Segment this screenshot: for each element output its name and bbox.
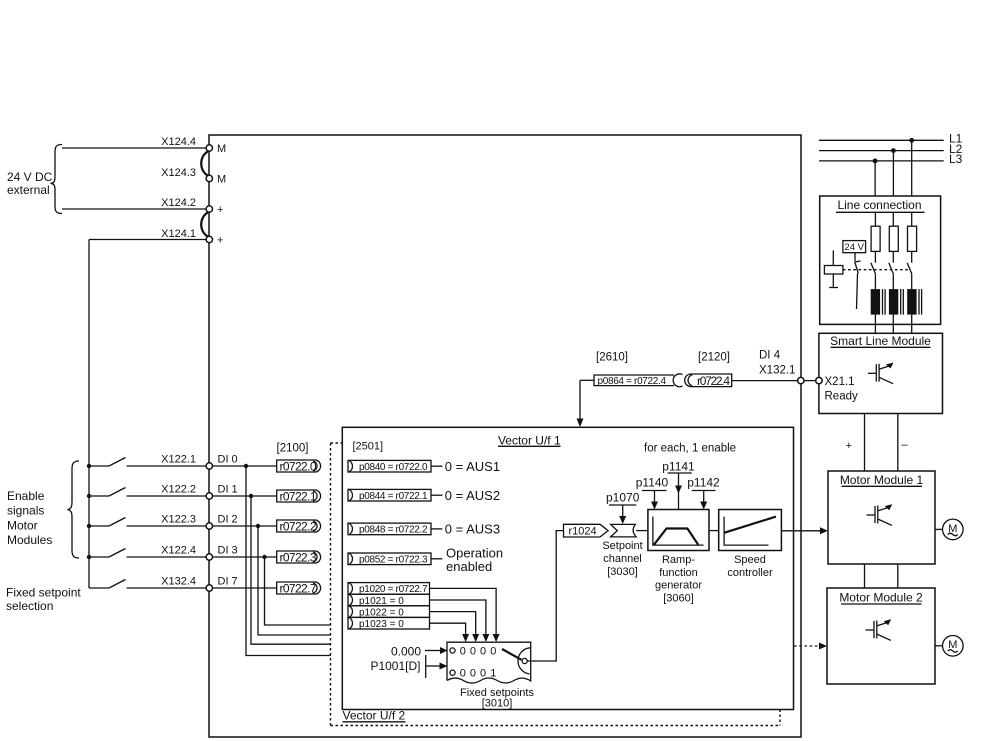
wire DI branch to Vector U/f 2	[265, 557, 331, 625]
wire DI branch to Vector U/f 2	[251, 496, 331, 644]
wire p1023 to fixed setpoints	[430, 623, 466, 635]
svg-text:0: 0	[470, 668, 476, 680]
svg-text:Setpoint: Setpoint	[602, 540, 642, 552]
arrow p1142 down	[703, 491, 705, 503]
arrow p1140 down	[654, 491, 656, 503]
ramp-function generator box	[648, 510, 709, 551]
bits 0 0 0 0	[460, 645, 497, 657]
svg-text:p1140: p1140	[636, 475, 669, 489]
svg-text:function: function	[659, 567, 698, 579]
choke 1	[871, 289, 885, 315]
svg-text:0 = AUS2: 0 = AUS2	[445, 488, 500, 503]
wire DI branch to Vector U/f 2	[258, 526, 331, 635]
phase wires into fuses	[874, 212, 876, 226]
svg-text:p1070: p1070	[606, 490, 640, 504]
svg-text:external: external	[7, 183, 50, 197]
wire ramp to speed controller	[709, 530, 719, 532]
motor M1	[943, 519, 964, 540]
Smart Line Module box	[819, 333, 943, 413]
jumper arc X124.4-X124.3	[201, 152, 208, 176]
junction dot DI 0	[244, 464, 248, 468]
switch X132.4	[89, 587, 109, 589]
terminal X124.1	[206, 236, 212, 242]
speed graph line	[724, 517, 776, 533]
svg-text:Fixed setpoint: Fixed setpoint	[6, 586, 81, 600]
mains line L1	[819, 139, 944, 141]
contactor linkage dashed	[843, 269, 909, 271]
svg-text:p0852 = r0722.3: p0852 = r0722.3	[359, 555, 428, 566]
svg-text:X21.1: X21.1	[825, 376, 855, 388]
svg-text:r0722.3: r0722.3	[280, 551, 317, 565]
svg-text:selection: selection	[6, 599, 53, 613]
choke 3	[907, 289, 921, 315]
svg-text:[2120]: [2120]	[698, 352, 730, 364]
wires chokes to Smart Line Module	[874, 315, 876, 334]
fuse 2	[889, 226, 898, 251]
connector output r1024	[564, 524, 609, 537]
junction dot DI 3	[262, 555, 266, 559]
svg-text:+: +	[217, 235, 223, 247]
IGBT symbol MM2	[866, 619, 892, 640]
svg-text:DI 1: DI 1	[218, 484, 238, 496]
wire MM1 to motor	[935, 528, 943, 530]
tap L3	[873, 159, 878, 164]
Motor Module 2 box	[827, 588, 935, 684]
svg-text:p1022 = 0: p1022 = 0	[359, 607, 404, 618]
wire fixed setpoints output to r1024	[527, 531, 563, 661]
Vector U/f 2 dashed box edges	[331, 443, 781, 726]
wire between terminals	[804, 380, 816, 382]
24V supply box	[843, 241, 866, 253]
svg-text:[2610]: [2610]	[596, 352, 628, 364]
terminal X122.3	[206, 523, 212, 529]
DC bus wires MM1 to MM2	[864, 564, 866, 588]
wire DI branch to Vector U/f 2	[246, 466, 331, 656]
contactor coil	[824, 266, 843, 275]
svg-text:Motor: Motor	[7, 518, 38, 532]
svg-text:Vector U/f 2: Vector U/f 2	[343, 709, 406, 723]
svg-text:X122.4: X122.4	[161, 545, 196, 557]
svg-text:0: 0	[480, 645, 486, 657]
svg-text:0: 0	[490, 645, 496, 657]
brace 24V DC	[51, 145, 63, 214]
bit terminal circle row2	[450, 670, 455, 675]
stub wire	[431, 528, 442, 530]
svg-text:generator: generator	[655, 580, 702, 592]
svg-text:0 = AUS3: 0 = AUS3	[445, 522, 500, 537]
wire DI 3 to connector	[213, 556, 277, 558]
stub wire	[431, 558, 442, 560]
connector output r0722.1	[277, 490, 321, 504]
terminal X124.3	[206, 175, 212, 181]
connector output r0722.4	[685, 374, 732, 388]
contactor contact 3	[907, 263, 912, 275]
svg-text:[3030]: [3030]	[607, 566, 638, 578]
svg-text:Line connection: Line connection	[837, 198, 921, 212]
svg-text:X124.2: X124.2	[161, 197, 196, 209]
svg-text:r0722.4: r0722.4	[697, 374, 730, 388]
svg-text:0: 0	[460, 645, 466, 657]
svg-text:+: +	[846, 440, 852, 452]
binector input p0840	[348, 460, 431, 473]
terminal X124.2	[206, 206, 212, 212]
svg-text:X122.1: X122.1	[161, 454, 196, 466]
svg-text:P1001[D]: P1001[D]	[370, 659, 420, 673]
IGBT symbol SLM	[868, 363, 894, 384]
terminal X132.4	[206, 585, 212, 591]
svg-text:r1024: r1024	[569, 526, 597, 538]
svg-text:0 = AUS1: 0 = AUS1	[445, 459, 500, 474]
Motor Module 1 box	[828, 471, 935, 564]
svg-text:[2501]: [2501]	[353, 441, 384, 453]
svg-text:p1142: p1142	[687, 475, 720, 489]
selector switch arc	[518, 648, 531, 674]
svg-text:DI 2: DI 2	[218, 514, 238, 526]
wire X124.4	[62, 147, 206, 149]
contactor contact 2	[889, 263, 894, 275]
svg-text:+: +	[217, 204, 223, 216]
arrow p1141 down	[678, 473, 680, 510]
selector contact circle	[522, 658, 527, 663]
wire p1021 to fixed setpoints	[430, 600, 486, 635]
svg-text:p1020 = r0722.7: p1020 = r0722.7	[359, 584, 428, 595]
svg-text:DI 7: DI 7	[218, 576, 238, 588]
wire p1020 to fixed setpoints	[430, 588, 497, 635]
ramp trapezoid	[654, 529, 698, 545]
svg-text:Vector U/f 1: Vector U/f 1	[498, 434, 561, 448]
stub wire	[431, 465, 442, 467]
svg-text:0: 0	[470, 645, 476, 657]
svg-text:X124.3: X124.3	[161, 167, 196, 179]
wire X122.3 to terminal	[127, 525, 206, 527]
svg-text:0: 0	[480, 668, 486, 680]
wires fuse to contacts	[874, 251, 876, 262]
svg-text:DI 0: DI 0	[218, 454, 238, 466]
brace enable signals	[68, 461, 80, 558]
wire X122.1 to terminal	[127, 465, 206, 467]
svg-text:24 V: 24 V	[844, 242, 864, 253]
terminal X122.1	[206, 463, 212, 469]
wire X124.2	[62, 208, 206, 210]
junction dot DI3 bus	[87, 555, 91, 559]
switch X122.2	[89, 495, 109, 497]
switch X122.1	[89, 465, 109, 467]
svg-text:Ready: Ready	[825, 390, 858, 402]
speed graph axes	[724, 517, 768, 546]
wire X124.1	[89, 239, 206, 241]
fuse 3	[908, 226, 917, 251]
bus wire from X124.1 down	[88, 240, 90, 589]
bit terminal circle row1	[450, 648, 455, 653]
binector input p1022	[348, 606, 430, 619]
wire branch down into Vector U/f 1	[579, 380, 581, 419]
wire speed controller to Motor Module 1	[781, 530, 823, 532]
wire MM2 to motor	[935, 645, 943, 647]
terminal X122.4	[206, 554, 212, 560]
svg-text:p0844 = r0722.1: p0844 = r0722.1	[359, 491, 428, 502]
tap L2	[891, 148, 896, 153]
svg-text:Motor Module 1: Motor Module 1	[840, 473, 924, 487]
svg-text:r0722.1: r0722.1	[280, 490, 317, 504]
mains line L2	[819, 150, 944, 152]
Vector U/f 1 function box	[342, 427, 793, 709]
svg-text:X124.1: X124.1	[161, 228, 196, 240]
svg-text:controller: controller	[727, 567, 773, 579]
svg-text:r0722.0: r0722.0	[280, 460, 317, 474]
svg-text:L3: L3	[949, 152, 963, 166]
mains line L3	[819, 160, 944, 162]
svg-text:1: 1	[490, 668, 496, 680]
crescent on p0864	[673, 374, 682, 387]
selector switch blade	[502, 649, 522, 660]
svg-text:0: 0	[460, 668, 466, 680]
junction dot DI1 bus	[87, 494, 91, 498]
svg-text:Speed: Speed	[734, 554, 766, 566]
switch X122.3	[89, 525, 109, 527]
fixed setpoints selector box	[447, 642, 531, 683]
svg-text:X132.4: X132.4	[161, 576, 196, 588]
tap L1	[909, 138, 914, 143]
switch X122.4	[89, 556, 109, 558]
motor M2	[943, 636, 964, 657]
wire DI 7 to connector	[213, 587, 277, 589]
wires contacts to chokes	[874, 274, 876, 289]
svg-text:0.000: 0.000	[391, 645, 421, 659]
svg-text:X124.4: X124.4	[161, 136, 196, 148]
wire r0722.4 to terminal	[732, 380, 798, 382]
svg-text:p1021 = 0: p1021 = 0	[359, 596, 404, 607]
DC bus + wire SLM to MM1	[864, 414, 866, 471]
svg-text:r0722.2: r0722.2	[280, 520, 317, 534]
setpoint channel banner symbol	[611, 524, 637, 537]
speed controller box	[719, 510, 782, 551]
terminal X122.2	[206, 493, 212, 499]
arrow P1001 into box	[425, 655, 427, 678]
ramp graph axes	[653, 517, 704, 546]
svg-text:X122.3: X122.3	[161, 514, 196, 526]
fuse 1	[871, 226, 880, 251]
IGBT symbol MM1	[867, 504, 893, 525]
binector input p1023	[348, 617, 430, 630]
junction dot DI0 bus	[87, 464, 91, 468]
wire DI 1 to connector	[213, 495, 277, 497]
24V switch	[854, 253, 856, 262]
wire p1022 to fixed setpoints	[430, 612, 476, 635]
svg-text:[3060]: [3060]	[663, 592, 694, 604]
svg-text:M: M	[217, 143, 226, 155]
Line connection box	[820, 196, 941, 324]
wire DI 0 to connector	[213, 465, 277, 467]
junction dot DI 2	[256, 524, 260, 528]
junction dot DI 1	[249, 494, 253, 498]
binector input p1020	[348, 582, 430, 595]
svg-text:X132.1: X132.1	[759, 365, 795, 377]
Control Unit enclosure box	[209, 135, 801, 737]
svg-text:Motor Module 2: Motor Module 2	[839, 591, 923, 605]
terminal X124.4	[206, 145, 212, 151]
svg-text:p0848 = r0722.2: p0848 = r0722.2	[359, 525, 428, 536]
svg-text:DI 3: DI 3	[218, 545, 238, 557]
svg-text:Smart Line Module: Smart Line Module	[830, 334, 931, 348]
binector input p0848	[348, 523, 431, 536]
svg-text:for each, 1 enable: for each, 1 enable	[644, 443, 736, 455]
binector input p0864	[594, 375, 674, 387]
choke 2	[889, 289, 903, 315]
svg-text:p0840 = r0722.0: p0840 = r0722.0	[359, 462, 428, 473]
connector output r0722.0	[277, 460, 321, 474]
svg-text:–: –	[902, 439, 909, 451]
connector output r0722.3	[277, 551, 321, 565]
wire X122.2 to terminal	[127, 495, 206, 497]
connector output r0722.2	[277, 520, 321, 534]
svg-text:X122.2: X122.2	[161, 484, 196, 496]
DC bus - wire SLM to MM1	[897, 414, 899, 471]
svg-text:[3010]: [3010]	[482, 698, 513, 710]
dashed wire Vector U/f 2 to MM2	[794, 645, 823, 647]
contactor contact 1	[871, 263, 876, 275]
svg-text:M: M	[217, 174, 226, 186]
jumper arc X124.2-X124.1	[201, 213, 208, 237]
terminal X132.1 on enclosure	[798, 377, 804, 383]
arrow 0.000 into box	[425, 650, 441, 652]
arrow p1070 down	[622, 505, 624, 517]
stub wire	[431, 494, 442, 496]
wire banner to ramp generator	[636, 530, 648, 532]
svg-text:Enable: Enable	[7, 489, 45, 503]
wire X132.4 to terminal	[127, 587, 206, 589]
binector input p1021	[348, 594, 430, 607]
wire DI 2 to connector	[213, 525, 277, 527]
junction dot DI2 bus	[87, 524, 91, 528]
wire X122.4 to terminal	[127, 556, 206, 558]
svg-text:Operation: Operation	[446, 545, 503, 560]
svg-text:Modules: Modules	[7, 533, 52, 547]
connector output r0722.7	[277, 582, 321, 596]
svg-text:channel: channel	[603, 553, 642, 565]
wire p0864 to branch	[580, 379, 594, 381]
svg-text:signals: signals	[7, 504, 44, 518]
svg-text:DI 4: DI 4	[759, 350, 781, 362]
svg-text:Ramp-: Ramp-	[662, 554, 695, 566]
svg-text:p1141: p1141	[662, 459, 695, 473]
svg-text:24 V DC: 24 V DC	[7, 170, 53, 184]
binector input p0852	[348, 553, 431, 566]
terminal X21.1	[816, 377, 822, 383]
svg-text:p0864 = r0722.4: p0864 = r0722.4	[598, 376, 667, 387]
svg-text:r0722.7: r0722.7	[280, 582, 317, 596]
svg-text:p1023 = 0: p1023 = 0	[359, 619, 404, 630]
binector input p0844	[348, 489, 431, 502]
svg-text:enabled: enabled	[446, 559, 492, 574]
svg-text:[2100]: [2100]	[277, 443, 309, 455]
bits 0 0 0 1	[460, 668, 497, 680]
